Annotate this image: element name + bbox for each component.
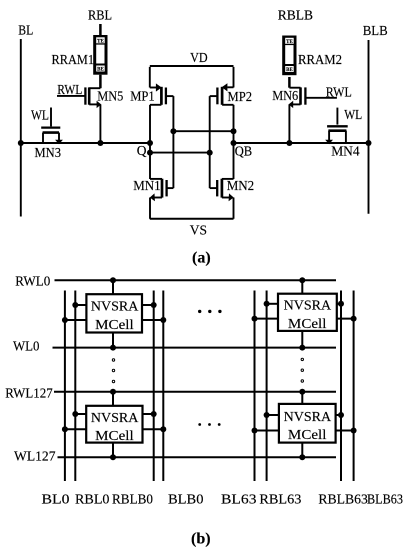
svg-text:WL: WL xyxy=(31,107,49,122)
svg-text:WL: WL xyxy=(344,107,362,122)
svg-text:MN1: MN1 xyxy=(133,178,161,193)
svg-text:RBLB0: RBLB0 xyxy=(112,492,153,507)
svg-text:TE: TE xyxy=(97,39,104,44)
svg-text:BLB: BLB xyxy=(363,23,388,38)
svg-text:WL127: WL127 xyxy=(14,449,56,464)
svg-text:MN3: MN3 xyxy=(35,145,62,160)
svg-text:NVSRA: NVSRA xyxy=(91,410,139,425)
svg-text:BE: BE xyxy=(286,68,293,73)
svg-text:RRAM1: RRAM1 xyxy=(52,52,95,67)
svg-text:MP1: MP1 xyxy=(130,88,155,103)
svg-text:BE: BE xyxy=(97,68,104,73)
svg-text:RBL0: RBL0 xyxy=(75,492,110,507)
svg-text:MN6: MN6 xyxy=(272,88,298,103)
svg-text:VD: VD xyxy=(190,50,208,65)
svg-text:MCell: MCell xyxy=(288,427,327,442)
svg-text:BL0: BL0 xyxy=(42,492,70,507)
svg-text:BLB0: BLB0 xyxy=(168,492,204,507)
svg-text:RBLB: RBLB xyxy=(278,8,313,23)
svg-text:BL63: BL63 xyxy=(221,492,257,507)
svg-text:MN5: MN5 xyxy=(97,88,123,103)
svg-text:NVSRA: NVSRA xyxy=(284,409,332,424)
svg-text:NVSRA: NVSRA xyxy=(91,299,139,314)
svg-text:MN2: MN2 xyxy=(227,178,255,193)
svg-text:(a): (a) xyxy=(192,249,211,266)
svg-text:MCell: MCell xyxy=(95,428,134,443)
svg-text:RWL: RWL xyxy=(57,82,82,97)
svg-text:RWL127: RWL127 xyxy=(5,385,53,400)
svg-text:RWL: RWL xyxy=(326,85,352,100)
svg-text:VS: VS xyxy=(190,222,207,237)
svg-text:BLB63: BLB63 xyxy=(367,492,403,507)
svg-text:RBL63: RBL63 xyxy=(259,492,301,507)
svg-text:QB: QB xyxy=(235,144,253,159)
svg-text:RBLB63: RBLB63 xyxy=(318,492,368,507)
svg-text:RBL: RBL xyxy=(88,8,112,23)
svg-text:MCell: MCell xyxy=(95,317,134,332)
svg-text:MCell: MCell xyxy=(288,316,327,331)
svg-text:TE: TE xyxy=(286,40,293,45)
svg-text:RWL0: RWL0 xyxy=(15,274,50,289)
svg-text:MN4: MN4 xyxy=(331,143,360,158)
svg-text:Q: Q xyxy=(137,143,147,158)
svg-text:WL0: WL0 xyxy=(13,339,40,354)
svg-text:(b): (b) xyxy=(191,531,211,548)
svg-text:MP2: MP2 xyxy=(228,89,253,104)
svg-text:BL: BL xyxy=(18,23,33,38)
svg-text:NVSRA: NVSRA xyxy=(284,298,332,313)
svg-text:RRAM2: RRAM2 xyxy=(298,52,342,67)
